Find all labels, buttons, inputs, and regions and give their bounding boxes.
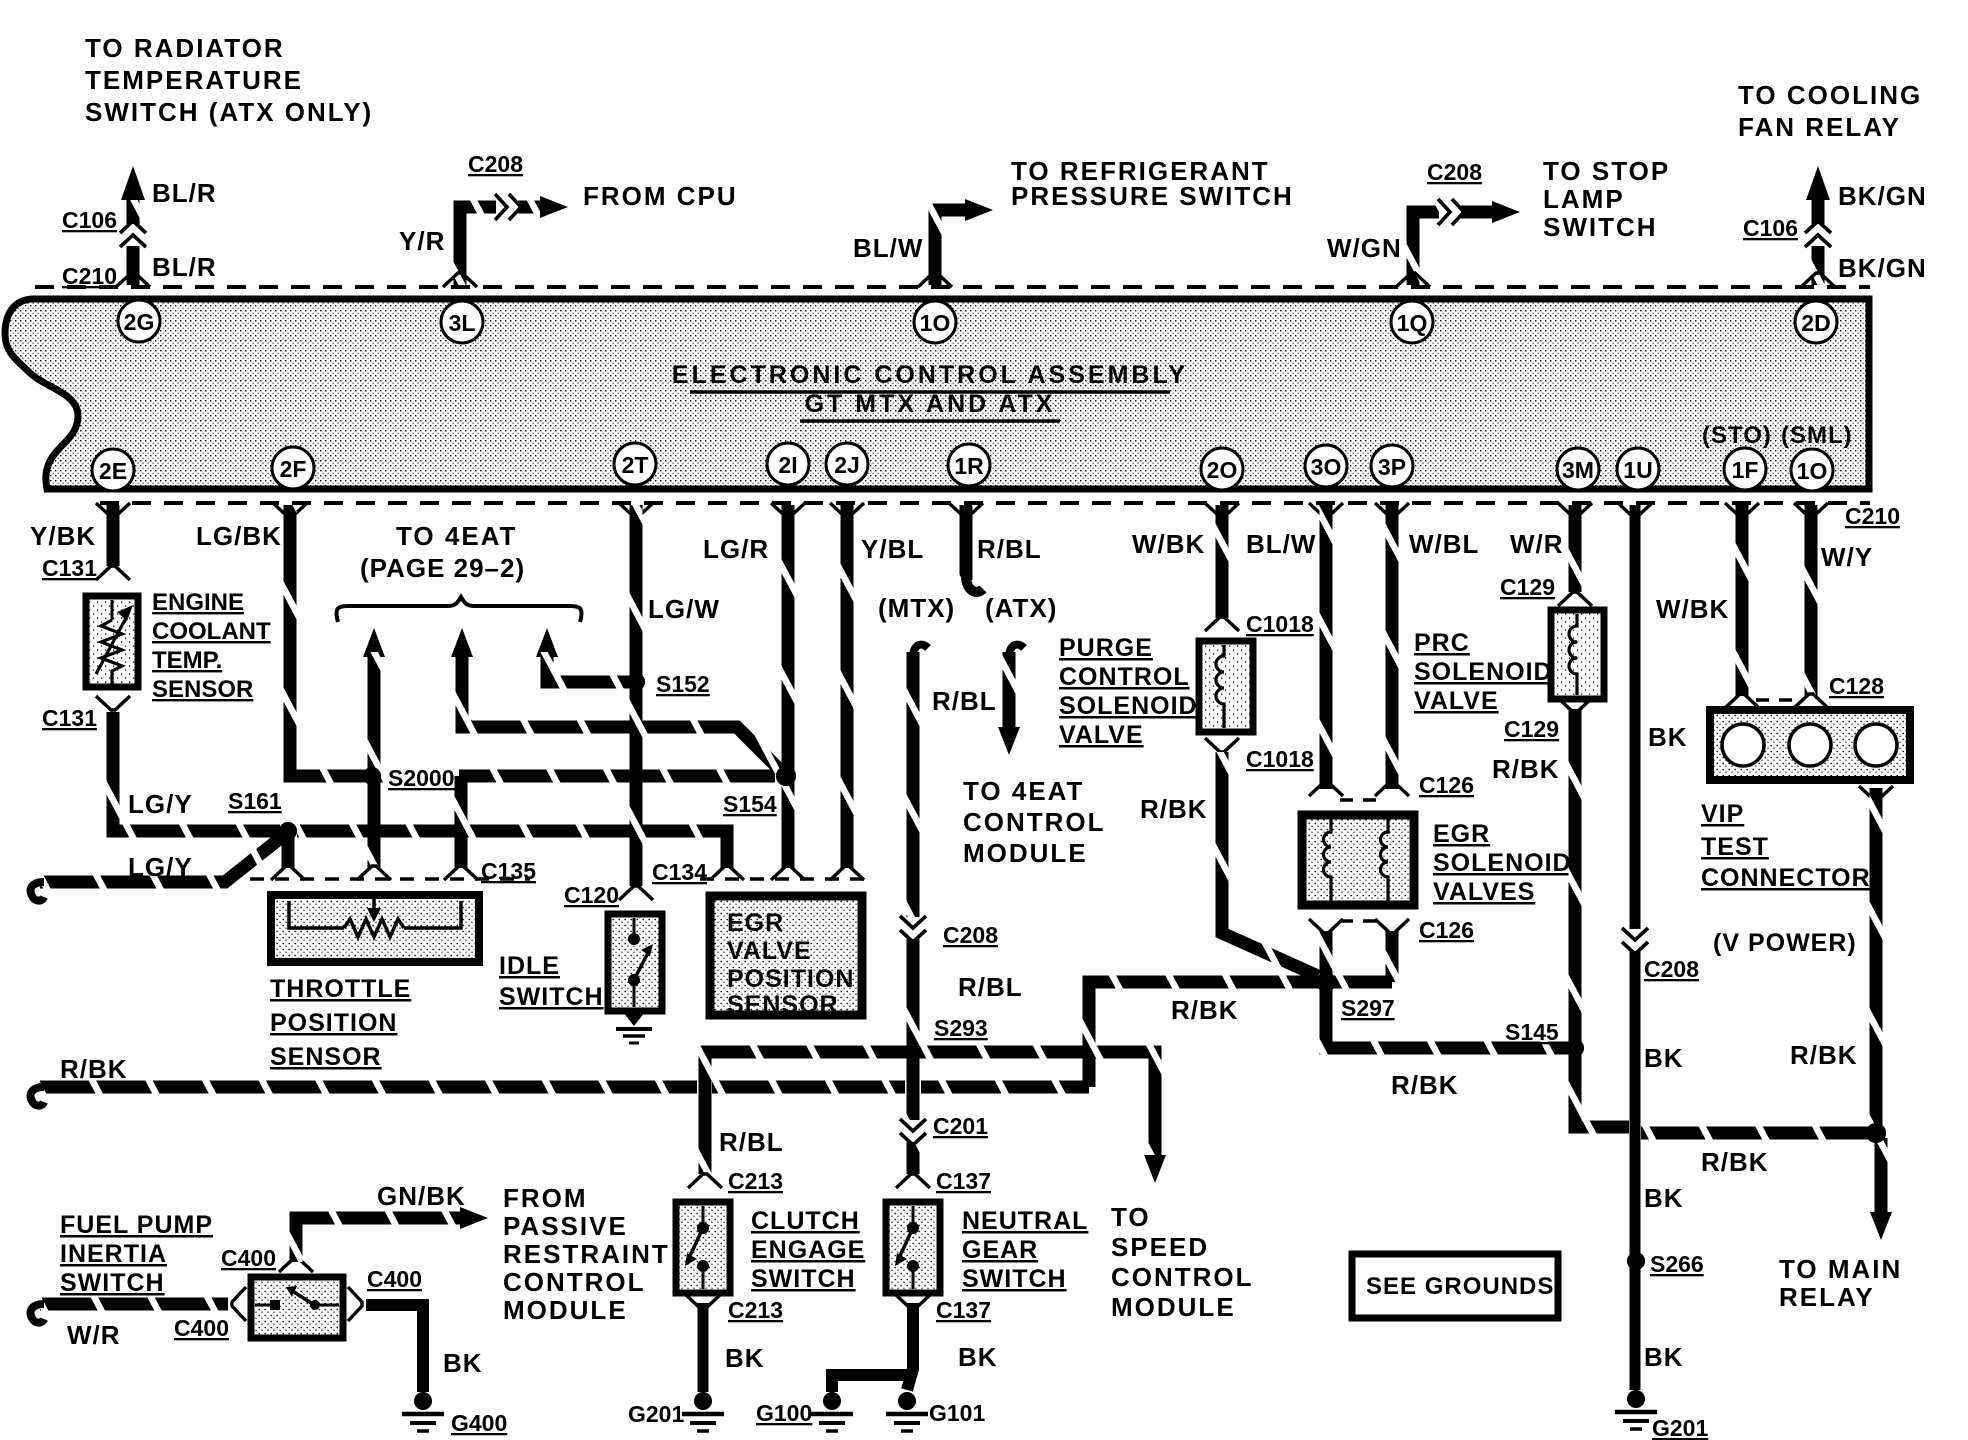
svg-text:R/BL: R/BL bbox=[932, 686, 997, 716]
wire GN/BK from switch top to passive restraint arrow bbox=[279, 1207, 488, 1272]
throttle position sensor bbox=[271, 895, 479, 962]
wire R/BL from pin 1R with hooked end bbox=[949, 503, 983, 592]
svg-text:GN/BK: GN/BK bbox=[377, 1181, 466, 1211]
pin 1R bbox=[948, 444, 990, 486]
svg-text:TO 4EAT: TO 4EAT bbox=[963, 776, 1084, 806]
wire BK from clutch switch to G201 bbox=[686, 1295, 720, 1392]
svg-text:TEMPERATURE: TEMPERATURE bbox=[85, 65, 303, 95]
pin 1O top bbox=[914, 301, 956, 343]
svg-text:SWITCH: SWITCH bbox=[60, 1269, 165, 1297]
EGR solenoid valves bbox=[1302, 815, 1414, 905]
svg-text:FAN RELAY: FAN RELAY bbox=[1738, 112, 1901, 142]
pin 2J bbox=[826, 443, 868, 485]
wire W/BK from pin 1F to VIP test connector bbox=[1725, 503, 1759, 708]
text to speed control module bbox=[1111, 1202, 1254, 1322]
svg-text:S152: S152 bbox=[656, 671, 710, 697]
wire R/BK long bus with hooked left end bbox=[31, 1087, 1090, 1106]
pin 3O bbox=[1305, 445, 1347, 487]
svg-text:G101: G101 bbox=[929, 1400, 985, 1426]
top dashed bus line bbox=[35, 285, 1870, 289]
svg-text:S161: S161 bbox=[228, 788, 282, 814]
svg-text:W/GN: W/GN bbox=[1327, 233, 1402, 263]
svg-text:ENGAGE: ENGAGE bbox=[751, 1236, 865, 1264]
node S161 bbox=[279, 822, 297, 840]
svg-text:C128: C128 bbox=[1829, 673, 1884, 699]
svg-text:TO MAIN: TO MAIN bbox=[1779, 1254, 1902, 1284]
brace over 4eat arrows bbox=[336, 597, 581, 622]
wire ATX branch with down arrow to 4eat control module bbox=[998, 645, 1024, 755]
svg-text:C213: C213 bbox=[728, 1168, 783, 1194]
PRC solenoid valve bbox=[1551, 610, 1604, 699]
ground G100 bbox=[811, 1392, 853, 1431]
wire R/BK from purge valve down to S297 bbox=[1205, 738, 1318, 976]
svg-text:2G: 2G bbox=[124, 309, 155, 335]
svg-text:C208: C208 bbox=[468, 151, 523, 177]
text to 4eat page 29-2 bbox=[360, 521, 525, 583]
svg-text:R/BK: R/BK bbox=[1171, 995, 1239, 1025]
wire LG/BK from pin 2F down and right along S2000 row bbox=[273, 503, 775, 776]
svg-text:VALVE: VALVE bbox=[1414, 687, 1499, 715]
VIP test connector C128 bbox=[1710, 710, 1910, 780]
EGR valve position sensor bbox=[710, 896, 862, 1019]
svg-text:C106: C106 bbox=[62, 207, 117, 233]
ground G201 clutch bbox=[682, 1392, 724, 1431]
wire BK from pin 1U straight down to G201 bbox=[1618, 503, 1652, 1390]
svg-text:TEST: TEST bbox=[1701, 833, 1769, 861]
wire BK/GN from pin 2D up to cooling fan relay bbox=[1801, 166, 1835, 287]
wire W/R into fuel pump inertia switch with hooked end bbox=[31, 1287, 247, 1323]
svg-text:(V POWER): (V POWER) bbox=[1713, 929, 1857, 957]
svg-text:LG/W: LG/W bbox=[648, 594, 720, 624]
svg-text:C400: C400 bbox=[174, 1315, 229, 1341]
svg-text:INERTIA: INERTIA bbox=[60, 1240, 167, 1268]
svg-text:(STO): (STO) bbox=[1702, 422, 1772, 449]
svg-text:SWITCH: SWITCH bbox=[751, 1265, 856, 1293]
bottom dashed bus line bbox=[100, 501, 1870, 505]
wire W/BK from pin 2O to purge control solenoid valve bbox=[1205, 503, 1239, 631]
svg-text:ENGINE: ENGINE bbox=[152, 589, 244, 616]
svg-text:RESTRAINT: RESTRAINT bbox=[503, 1239, 670, 1269]
svg-text:BK: BK bbox=[1644, 1342, 1684, 1372]
text to 4eat control module bbox=[963, 776, 1106, 868]
svg-text:PURGE: PURGE bbox=[1059, 634, 1153, 662]
text to main relay bbox=[1779, 1254, 1902, 1312]
svg-text:FROM: FROM bbox=[503, 1183, 588, 1213]
node S145 top bbox=[1566, 1039, 1584, 1057]
svg-text:SWITCH: SWITCH bbox=[499, 983, 604, 1011]
svg-text:2J: 2J bbox=[834, 452, 860, 478]
svg-text:Y/R: Y/R bbox=[399, 226, 445, 256]
svg-text:R/BL: R/BL bbox=[977, 534, 1042, 564]
svg-text:Y/BL: Y/BL bbox=[861, 534, 924, 564]
fuel pump inertia switch box bbox=[251, 1277, 343, 1338]
svg-text:CONTROL: CONTROL bbox=[503, 1267, 646, 1297]
svg-text:VALVE: VALVE bbox=[727, 937, 812, 965]
svg-text:TO RADIATOR: TO RADIATOR bbox=[85, 33, 285, 63]
wire W/R from pin 3M to PRC solenoid valve bbox=[1558, 503, 1592, 606]
node S293 top bbox=[904, 1043, 922, 1061]
text from passive restraint control module bbox=[503, 1183, 670, 1325]
electronic control assembly band U1 bbox=[5, 299, 1869, 489]
svg-text:CLUTCH: CLUTCH bbox=[751, 1207, 860, 1235]
svg-text:S297: S297 bbox=[1341, 995, 1395, 1021]
label engine coolant temp sensor bbox=[152, 589, 271, 703]
svg-text:1F: 1F bbox=[1732, 457, 1759, 483]
svg-text:SENSOR: SENSOR bbox=[727, 991, 839, 1019]
svg-text:C400: C400 bbox=[221, 1245, 276, 1271]
svg-text:C131: C131 bbox=[42, 555, 97, 581]
svg-text:S2000: S2000 bbox=[388, 765, 455, 791]
svg-text:IDLE: IDLE bbox=[499, 952, 560, 980]
ground G201 under BK wire bbox=[1615, 1390, 1657, 1429]
wire from EGR solenoid right pin down into S297 row bbox=[1375, 919, 1409, 982]
label S2000 bbox=[383, 761, 459, 795]
pin 3M bbox=[1557, 448, 1599, 490]
svg-text:Y/BK: Y/BK bbox=[30, 521, 96, 551]
svg-text:PRESSURE SWITCH: PRESSURE SWITCH bbox=[1011, 181, 1294, 211]
svg-text:TO: TO bbox=[1111, 1202, 1151, 1232]
dashed stub between 1F and 1O wires bbox=[1756, 698, 1798, 702]
svg-text:SOLENOID: SOLENOID bbox=[1433, 849, 1572, 877]
svg-text:S293: S293 bbox=[934, 1015, 988, 1041]
svg-text:G400: G400 bbox=[451, 1410, 507, 1436]
svg-text:BK: BK bbox=[1644, 1043, 1684, 1073]
svg-text:C129: C129 bbox=[1504, 716, 1559, 742]
node S152 top bbox=[627, 673, 645, 691]
svg-text:C137: C137 bbox=[936, 1297, 991, 1323]
svg-text:C120: C120 bbox=[564, 882, 619, 908]
wire LG/R from pin 2I through S154 to EGR position sensor bbox=[771, 503, 805, 880]
wire R/BK from VIP connector down to main relay junction bbox=[1859, 786, 1893, 1133]
node main relay junction top bbox=[1866, 1123, 1886, 1143]
svg-text:C210: C210 bbox=[1845, 503, 1900, 529]
svg-text:C129: C129 bbox=[1500, 574, 1555, 600]
svg-text:C134: C134 bbox=[652, 859, 707, 885]
svg-text:S266: S266 bbox=[1650, 1251, 1704, 1277]
svg-text:G201: G201 bbox=[1652, 1415, 1708, 1440]
svg-text:NEUTRAL: NEUTRAL bbox=[962, 1207, 1088, 1235]
svg-text:VALVES: VALVES bbox=[1433, 878, 1535, 906]
svg-text:MODULE: MODULE bbox=[503, 1295, 628, 1325]
wire LG/Y diagonal from S161 to left edge bbox=[31, 836, 284, 901]
svg-text:W/BK: W/BK bbox=[1656, 594, 1729, 624]
svg-text:BL/R: BL/R bbox=[152, 252, 217, 282]
svg-text:BK/GN: BK/GN bbox=[1838, 253, 1927, 283]
svg-text:BK/GN: BK/GN bbox=[1838, 181, 1927, 211]
ground G400 bbox=[402, 1392, 444, 1431]
pin 2G bbox=[118, 300, 160, 342]
label idle switch bbox=[499, 952, 604, 1011]
ground below idle switch bbox=[616, 1012, 652, 1043]
svg-text:W/BK: W/BK bbox=[1132, 529, 1205, 559]
dashed connector line C126 bottom bbox=[1340, 919, 1380, 923]
svg-text:TEMP.: TEMP. bbox=[152, 647, 222, 674]
svg-text:R/BK: R/BK bbox=[1391, 1070, 1459, 1100]
svg-text:R/BL: R/BL bbox=[958, 972, 1023, 1002]
svg-text:C1018: C1018 bbox=[1246, 746, 1314, 772]
svg-text:BL/W: BL/W bbox=[1246, 529, 1316, 559]
see grounds box bbox=[1352, 1254, 1558, 1318]
svg-text:W/BL: W/BL bbox=[1409, 529, 1479, 559]
svg-text:W/Y: W/Y bbox=[1821, 542, 1873, 572]
label neutral gear switch bbox=[962, 1207, 1088, 1293]
wire R/BL MTX branch down to neutral gear switch bbox=[896, 645, 930, 1188]
svg-text:THROTTLE: THROTTLE bbox=[270, 975, 411, 1003]
svg-text:C137: C137 bbox=[936, 1168, 991, 1194]
svg-text:ELECTRONIC CONTROL ASSEMBLY: ELECTRONIC CONTROL ASSEMBLY bbox=[672, 361, 1188, 389]
svg-text:LG/Y: LG/Y bbox=[128, 789, 193, 819]
4eat arrow 2 to S154 row bbox=[451, 628, 780, 770]
svg-text:VALVE: VALVE bbox=[1059, 721, 1144, 749]
svg-text:3L: 3L bbox=[449, 310, 476, 336]
svg-text:1U: 1U bbox=[1623, 457, 1652, 483]
svg-text:LG/Y: LG/Y bbox=[128, 852, 193, 882]
wire BL/W from pin 1O to refrigerant pressure switch bbox=[918, 199, 993, 287]
svg-text:BL/W: BL/W bbox=[853, 233, 923, 263]
svg-text:G100: G100 bbox=[756, 1400, 812, 1426]
svg-text:EGR: EGR bbox=[727, 909, 784, 937]
svg-text:LG/R: LG/R bbox=[703, 534, 769, 564]
label purge control solenoid valve bbox=[1059, 634, 1198, 749]
svg-text:POSITION: POSITION bbox=[270, 1009, 397, 1037]
pin 2F bbox=[272, 447, 314, 489]
svg-text:SPEED: SPEED bbox=[1111, 1232, 1209, 1262]
svg-text:(ATX): (ATX) bbox=[985, 593, 1057, 623]
svg-text:C1018: C1018 bbox=[1246, 611, 1314, 637]
wire R/BK from PRC solenoid through S145 to BK wire stub bbox=[1558, 698, 1624, 1127]
dashed connector line C126 top bbox=[1340, 798, 1380, 802]
svg-text:C210: C210 bbox=[62, 263, 117, 289]
label fuel pump inertia switch bbox=[60, 1211, 213, 1297]
svg-text:R/BK: R/BK bbox=[60, 1054, 128, 1084]
svg-text:PASSIVE: PASSIVE bbox=[503, 1211, 628, 1241]
svg-text:BK: BK bbox=[725, 1343, 765, 1373]
label EGR solenoid valves bbox=[1433, 820, 1572, 906]
wire LG/W from pin 2T down to idle switch bbox=[619, 503, 653, 900]
svg-text:SWITCH: SWITCH bbox=[962, 1265, 1067, 1293]
svg-text:R/BK: R/BK bbox=[1492, 754, 1560, 784]
wire W/Y from pin 1O to VIP test connector bbox=[1794, 503, 1828, 708]
svg-text:1O: 1O bbox=[1797, 458, 1828, 484]
ground G101 bbox=[886, 1392, 928, 1431]
svg-text:S154: S154 bbox=[723, 791, 777, 817]
svg-text:C106: C106 bbox=[1743, 215, 1798, 241]
svg-text:GT MTX AND ATX: GT MTX AND ATX bbox=[805, 390, 1056, 418]
wire R/BL row from clutch switch through S293 to speed control arrow bbox=[705, 1052, 1166, 1183]
node S154 top bbox=[776, 766, 796, 786]
svg-text:1O: 1O bbox=[920, 310, 951, 336]
svg-text:C213: C213 bbox=[728, 1297, 783, 1323]
wire Y/BK from pin 2E to coolant temp sensor bbox=[96, 503, 130, 580]
wire BL/R from pin 2G up to radiator temp switch bbox=[116, 166, 150, 287]
svg-text:R/BK: R/BK bbox=[1790, 1040, 1858, 1070]
svg-text:2I: 2I bbox=[778, 452, 797, 478]
wire BL/W from pin 3O to EGR solenoid valves bbox=[1309, 503, 1343, 796]
pin 1O bottom bbox=[1791, 449, 1833, 491]
svg-text:BK: BK bbox=[443, 1348, 483, 1378]
svg-text:TO STOP: TO STOP bbox=[1543, 156, 1670, 186]
label PRC solenoid valve bbox=[1414, 629, 1553, 715]
wire row from S161 row right to C134 pin of EGR position sensor bbox=[297, 831, 744, 880]
svg-text:C131: C131 bbox=[42, 705, 97, 731]
4eat arrow 1 over S2000 down to throttle sensor bbox=[357, 628, 391, 880]
svg-text:2T: 2T bbox=[622, 452, 649, 478]
wire BK from neutral switch to grounds G100 and G101 bbox=[832, 1295, 930, 1392]
label clutch engage switch bbox=[751, 1207, 865, 1293]
svg-text:R/BK: R/BK bbox=[1140, 794, 1208, 824]
svg-text:C208: C208 bbox=[1427, 159, 1482, 185]
wire from coolant sensor down to S161 row bbox=[96, 696, 280, 831]
svg-text:BK: BK bbox=[958, 1342, 998, 1372]
svg-text:(SML): (SML) bbox=[1781, 422, 1853, 449]
svg-text:MODULE: MODULE bbox=[1111, 1292, 1236, 1322]
wire W/GN from pin 1Q to stop lamp switch with connector C208 bbox=[1396, 199, 1520, 287]
svg-text:C135: C135 bbox=[481, 858, 536, 884]
svg-text:SOLENOID: SOLENOID bbox=[1414, 658, 1553, 686]
wire from S297 down then right to S145 bbox=[1326, 982, 1570, 1048]
node S161 top bbox=[279, 822, 297, 840]
pin 2O bbox=[1201, 448, 1243, 490]
text: to refrigerant pressure switch bbox=[1011, 156, 1294, 211]
node S2000 top bbox=[363, 767, 381, 785]
svg-text:VIP: VIP bbox=[1701, 800, 1744, 828]
idle switch bbox=[608, 914, 662, 1011]
svg-text:W/R: W/R bbox=[67, 1320, 121, 1350]
pin 3P bbox=[1371, 445, 1413, 487]
svg-text:SWITCH (ATX ONLY): SWITCH (ATX ONLY) bbox=[85, 97, 373, 127]
node S266 bbox=[1627, 1252, 1645, 1270]
text: to radiator temperature switch bbox=[85, 33, 373, 127]
svg-text:SENSOR: SENSOR bbox=[152, 676, 253, 703]
node S266 top bbox=[1627, 1252, 1645, 1270]
wire stub from S2000 row down to throttle pin 3 bbox=[444, 776, 478, 880]
svg-text:C126: C126 bbox=[1419, 917, 1474, 943]
node S2000 bbox=[363, 767, 381, 785]
wire Y/R from pin 3L to CPU with connector C208 bbox=[443, 194, 568, 287]
svg-text:MODULE: MODULE bbox=[963, 838, 1088, 868]
svg-text:2E: 2E bbox=[99, 458, 127, 484]
svg-text:R/BK: R/BK bbox=[1701, 1147, 1769, 1177]
node S297 top bbox=[1316, 972, 1336, 992]
pin 2E bbox=[92, 449, 134, 491]
4eat arrow 3 to S152 bbox=[536, 628, 630, 682]
svg-text:CONNECTOR: CONNECTOR bbox=[1701, 864, 1871, 892]
node S297 bbox=[1316, 972, 1336, 992]
svg-text:LG/BK: LG/BK bbox=[196, 521, 282, 551]
svg-text:PRC: PRC bbox=[1414, 629, 1470, 657]
svg-text:(PAGE 29–2): (PAGE 29–2) bbox=[360, 553, 525, 583]
pin 1U bbox=[1617, 448, 1659, 490]
pin 2I bbox=[767, 443, 809, 485]
arrow down to main relay bbox=[1870, 1212, 1892, 1240]
svg-text:TO COOLING: TO COOLING bbox=[1738, 80, 1922, 110]
svg-text:RELAY: RELAY bbox=[1779, 1282, 1875, 1312]
pin 3L bbox=[441, 301, 483, 343]
text: to stop lamp switch bbox=[1543, 156, 1670, 242]
svg-text:BL/R: BL/R bbox=[152, 178, 217, 208]
svg-text:R/BL: R/BL bbox=[719, 1127, 784, 1157]
clutch engage switch bbox=[676, 1174, 730, 1293]
svg-text:TO 4EAT: TO 4EAT bbox=[396, 521, 517, 551]
node S145 bbox=[1566, 1039, 1584, 1057]
node main relay junction bbox=[1866, 1123, 1886, 1143]
wire W/BL from pin 3P to EGR solenoid valves bbox=[1375, 503, 1409, 796]
wire from EGR solenoid left pin down to S297 bbox=[1309, 919, 1343, 975]
svg-text:C208: C208 bbox=[1644, 956, 1699, 982]
pin 1Q bbox=[1391, 301, 1433, 343]
svg-text:CONTROL: CONTROL bbox=[1111, 1262, 1254, 1292]
svg-text:SEE GROUNDS: SEE GROUNDS bbox=[1366, 1273, 1554, 1300]
svg-text:BK: BK bbox=[1648, 722, 1688, 752]
svg-text:COOLANT: COOLANT bbox=[152, 618, 271, 645]
junction dots overlay bbox=[279, 673, 1886, 1270]
node S152 bbox=[627, 673, 645, 691]
svg-text:BK: BK bbox=[1644, 1183, 1684, 1213]
svg-text:C201: C201 bbox=[933, 1113, 988, 1139]
svg-text:S145: S145 bbox=[1505, 1019, 1559, 1045]
svg-text:SENSOR: SENSOR bbox=[270, 1043, 382, 1071]
svg-text:(MTX): (MTX) bbox=[878, 593, 955, 623]
svg-text:C400: C400 bbox=[367, 1266, 422, 1292]
node S293 bbox=[904, 1043, 922, 1061]
svg-text:1Q: 1Q bbox=[1397, 310, 1428, 336]
svg-text:SWITCH: SWITCH bbox=[1543, 212, 1658, 242]
wire stub S161 down to throttle sensor pin bbox=[271, 831, 305, 880]
text: to cooling fan relay bbox=[1738, 80, 1922, 142]
label VIP test connector bbox=[1701, 800, 1871, 892]
svg-text:C126: C126 bbox=[1419, 772, 1474, 798]
svg-text:CONTROL: CONTROL bbox=[1059, 663, 1190, 691]
pin 1F bbox=[1724, 448, 1766, 490]
svg-text:2O: 2O bbox=[1207, 457, 1238, 483]
node S154 bbox=[776, 766, 796, 786]
svg-text:FROM CPU: FROM CPU bbox=[583, 181, 738, 211]
svg-text:GEAR: GEAR bbox=[962, 1236, 1038, 1264]
wire R/BK horizontal to main relay junction bbox=[1581, 1127, 1876, 1133]
svg-text:SOLENOID: SOLENOID bbox=[1059, 692, 1198, 720]
wire Y/BL from pin 2J down to EGR position sensor bbox=[830, 503, 864, 880]
svg-text:3P: 3P bbox=[1378, 454, 1406, 480]
svg-text:2F: 2F bbox=[280, 456, 307, 482]
svg-text:FUEL PUMP: FUEL PUMP bbox=[60, 1211, 213, 1239]
svg-text:POSITION: POSITION bbox=[727, 965, 854, 993]
label throttle position sensor bbox=[270, 975, 411, 1071]
neutral gear switch bbox=[886, 1202, 940, 1293]
svg-text:1R: 1R bbox=[954, 453, 984, 479]
dashed connector line C134 bbox=[700, 877, 870, 881]
pin 2D bbox=[1795, 301, 1837, 343]
svg-text:LAMP: LAMP bbox=[1543, 184, 1625, 214]
svg-text:W/R: W/R bbox=[1510, 529, 1564, 559]
svg-text:2D: 2D bbox=[1801, 310, 1830, 336]
purge control solenoid valve bbox=[1199, 641, 1253, 732]
wire BK from switch right to G400 bbox=[348, 1287, 423, 1392]
dashed connector line C135 bbox=[250, 877, 530, 881]
wire S297 row to left joining R/BK bus riser bbox=[1089, 982, 1392, 1087]
svg-text:3M: 3M bbox=[1562, 457, 1594, 483]
svg-text:3O: 3O bbox=[1311, 454, 1342, 480]
svg-text:G201: G201 bbox=[628, 1401, 684, 1427]
svg-text:EGR: EGR bbox=[1433, 820, 1490, 848]
svg-text:CONTROL: CONTROL bbox=[963, 807, 1106, 837]
engine coolant temp sensor bbox=[86, 596, 138, 687]
pin 2T bbox=[614, 443, 656, 485]
svg-text:C208: C208 bbox=[943, 922, 998, 948]
